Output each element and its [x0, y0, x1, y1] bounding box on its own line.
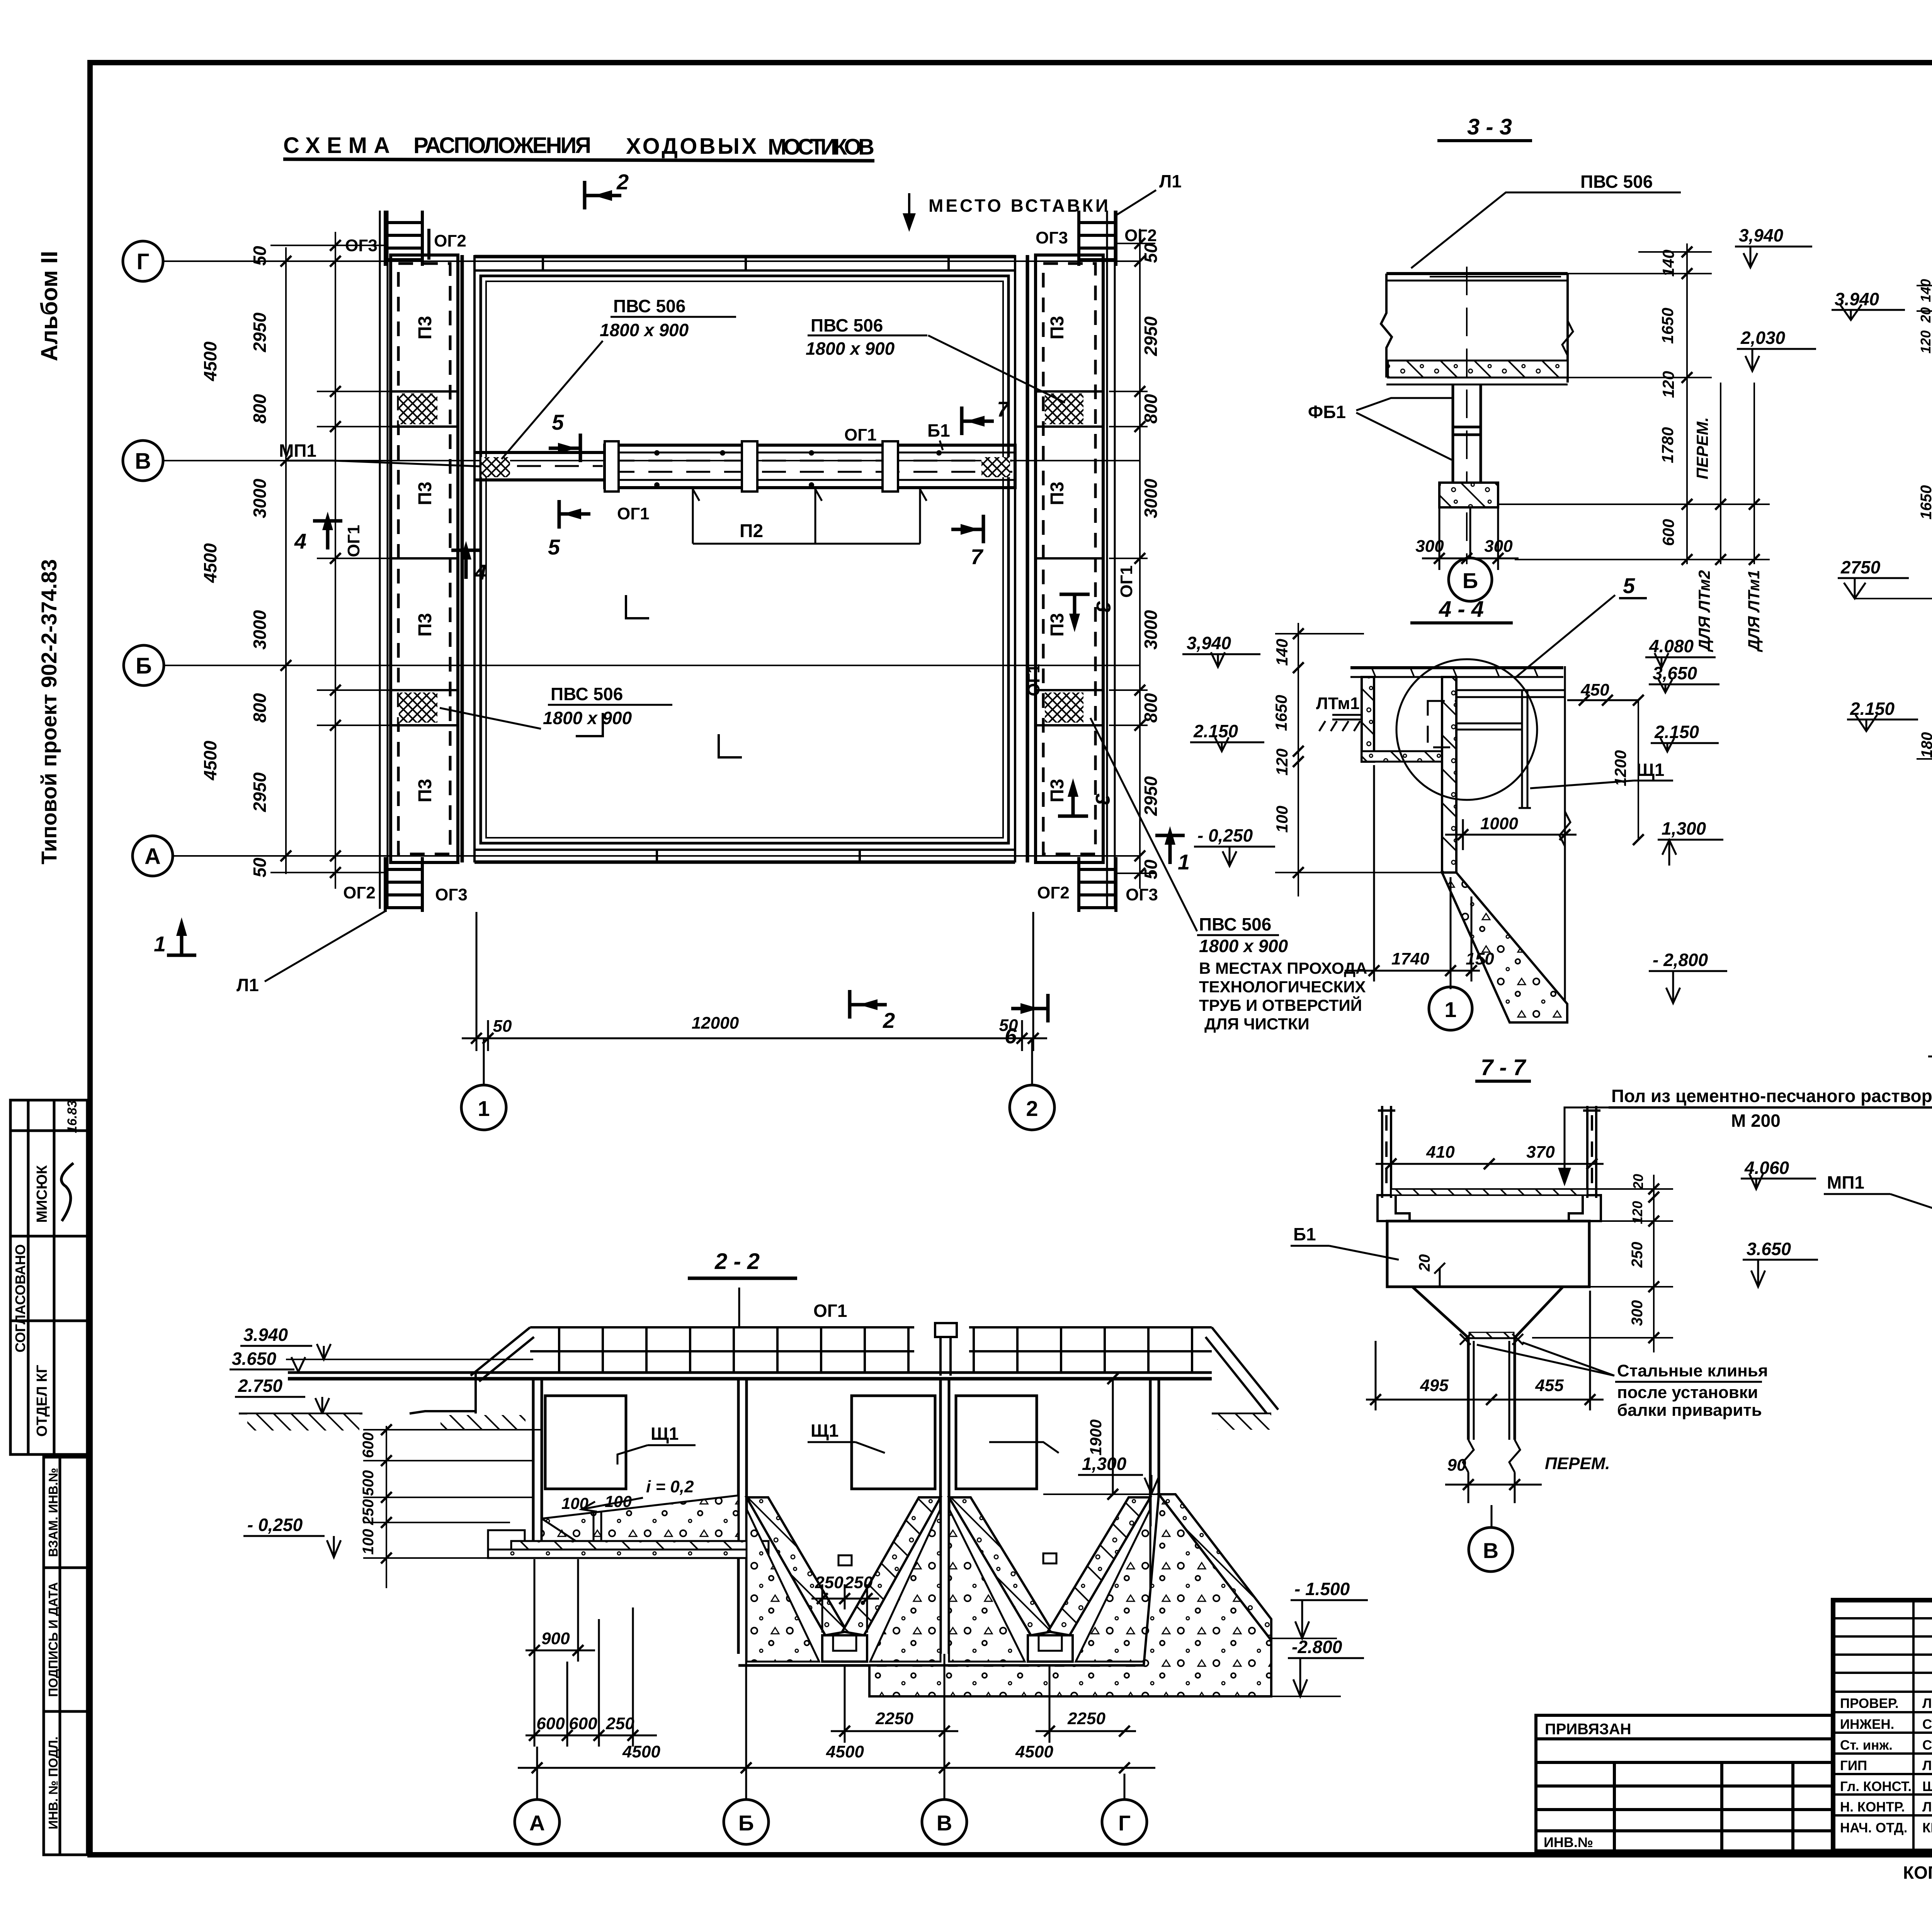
- svg-text:1650: 1650: [1918, 485, 1932, 520]
- svg-text:МП1: МП1: [1827, 1172, 1864, 1192]
- ladder bottom-right: [1079, 857, 1116, 912]
- svg-text:В: В: [1483, 1538, 1498, 1563]
- svg-text:500: 500: [360, 1470, 377, 1496]
- 4-4 hopper diagonal: [1442, 873, 1567, 1022]
- svg-text:П3: П3: [415, 613, 435, 636]
- svg-text:ОТДЕЛ КГ: ОТДЕЛ КГ: [34, 1365, 50, 1437]
- svg-text:50: 50: [250, 857, 270, 878]
- svg-text:МОСТИКОВ: МОСТИКОВ: [768, 134, 874, 160]
- section cut 1 (left bottom): [167, 927, 196, 955]
- axis bubbles 2-2: [536, 1747, 538, 1799]
- svg-text:100: 100: [1273, 806, 1291, 833]
- svg-text:П2: П2: [740, 521, 763, 541]
- dim 4500 x3 (2-2): [518, 1767, 1155, 1769]
- section cut 4 (left): [313, 521, 342, 549]
- hatch squares in panel columns: [399, 393, 437, 424]
- svg-text:120: 120: [1659, 371, 1677, 398]
- svg-text:20: 20: [1416, 1254, 1433, 1272]
- dim 90 перем (7-7): [1445, 1484, 1542, 1486]
- svg-text:495: 495: [1420, 1376, 1449, 1395]
- svg-text:Щ1: Щ1: [651, 1424, 679, 1444]
- floor plate: [1391, 1189, 1587, 1195]
- plan: right outer wall face lines: [1106, 211, 1108, 909]
- svg-text:ОГ3: ОГ3: [435, 885, 468, 904]
- plan: left outer wall face lines: [380, 211, 1115, 909]
- svg-text:Пол из цементно-песчаного рас: Пол из цементно-песчаного раствора: [1611, 1086, 1932, 1106]
- svg-text:КРАСАВИН: КРАСАВИН: [1922, 1820, 1932, 1835]
- svg-text:16.83: 16.83: [65, 1100, 80, 1133]
- svg-text:ОГ1: ОГ1: [1117, 565, 1136, 598]
- axis bubble Б (3-3): [1469, 507, 1471, 558]
- svg-text:1780: 1780: [1658, 427, 1677, 463]
- svg-text:4500: 4500: [826, 1742, 864, 1761]
- svg-text:ТЕХНОЛОГИЧЕСКИХ: ТЕХНОЛОГИЧЕСКИХ: [1199, 978, 1366, 996]
- svg-text:МЕСТО ВСТАВКИ: МЕСТО ВСТАВКИ: [929, 196, 1111, 216]
- svg-text:А: А: [529, 1811, 545, 1835]
- svg-text:ФБ1: ФБ1: [1308, 402, 1346, 422]
- svg-text:Г: Г: [1118, 1811, 1131, 1835]
- svg-text:20: 20: [1918, 307, 1932, 323]
- svg-text:7 - 7: 7 - 7: [1481, 1055, 1527, 1080]
- svg-text:П3: П3: [1047, 613, 1068, 636]
- attachment table (ПРИВЯЗАН): [1536, 1715, 1833, 1851]
- svg-text:ЛОУЦКЕР: ЛОУЦКЕР: [1922, 1758, 1932, 1773]
- svg-text:3000: 3000: [250, 478, 270, 518]
- svg-text:ОГ3: ОГ3: [1126, 885, 1158, 904]
- svg-text:140: 140: [1918, 279, 1932, 302]
- svg-text:3: 3: [1091, 794, 1114, 805]
- svg-text:4500: 4500: [200, 740, 220, 781]
- section cut 6 (bottom right): [1011, 994, 1048, 1022]
- 4-4 left dim chain: [1275, 623, 1442, 896]
- section cut 3 (upper, right wall): [1060, 594, 1090, 623]
- svg-text:Типовой проект 902-2-374.83: Типовой проект 902-2-374.83: [37, 559, 61, 864]
- svg-text:В МЕСТАХ ПРОХОДА: В МЕСТАХ ПРОХОДА: [1199, 959, 1367, 977]
- svg-text:1,300: 1,300: [1662, 818, 1706, 839]
- svg-text:МП1: МП1: [279, 441, 316, 461]
- svg-text:ПРИВЯЗАН: ПРИВЯЗАН: [1545, 1721, 1631, 1738]
- svg-text:600: 600: [536, 1714, 565, 1733]
- svg-text:П3: П3: [415, 316, 435, 339]
- svg-text:5: 5: [548, 535, 560, 559]
- svg-text:Б: Б: [1463, 568, 1478, 593]
- right sloped mass beyond Г: [869, 1494, 1271, 1696]
- svg-text:4 - 4: 4 - 4: [1439, 597, 1484, 622]
- axis line В: [163, 460, 1140, 461]
- section cut 2 (bottom): [850, 990, 887, 1019]
- svg-text:- 1.500: - 1.500: [1294, 1579, 1350, 1599]
- svg-text:-2.800: -2.800: [1292, 1637, 1342, 1657]
- section cut 2 (top): [585, 181, 621, 209]
- svg-text:А: А: [145, 844, 161, 869]
- svg-text:2,030: 2,030: [1740, 328, 1786, 348]
- axis bubble Г: [123, 241, 163, 281]
- plan: walkway at В - narrow part: [474, 441, 1015, 492]
- svg-text:800: 800: [250, 693, 270, 723]
- svg-text:1: 1: [478, 1096, 490, 1121]
- svg-text:Альбом II: Альбом II: [36, 251, 62, 361]
- svg-text:ПЕРЕМ.: ПЕРЕМ.: [1545, 1454, 1610, 1473]
- svg-text:370: 370: [1526, 1143, 1555, 1162]
- left stamp: upper table (СОГЛАСОВАНО): [10, 1100, 87, 1454]
- svg-text:СТРИГИНА: СТРИГИНА: [1922, 1717, 1932, 1732]
- svg-text:ШАПИРО: ШАПИРО: [1922, 1779, 1932, 1794]
- hopper 1 (Б-В): [747, 1497, 847, 1635]
- section cut 1 (right): [1155, 835, 1185, 864]
- svg-text:Б1: Б1: [927, 420, 950, 441]
- svg-text:3,940: 3,940: [1187, 633, 1231, 653]
- svg-text:2: 2: [616, 170, 629, 194]
- svg-text:140: 140: [1273, 639, 1291, 666]
- svg-text:Л1: Л1: [1159, 171, 1182, 191]
- svg-text:ПВС 506: ПВС 506: [1580, 172, 1653, 192]
- svg-text:2: 2: [1026, 1096, 1038, 1121]
- svg-text:300: 300: [1629, 1300, 1646, 1326]
- svg-text:50: 50: [250, 246, 270, 266]
- axis bubble Б: [124, 645, 164, 685]
- plan: left wall inner double line: [461, 255, 464, 862]
- svg-text:ПРОВЕР.: ПРОВЕР.: [1840, 1696, 1899, 1711]
- dim 900 (2-2): [526, 1559, 595, 1747]
- plan: inner basin contour: [481, 276, 1009, 843]
- svg-text:ГИП: ГИП: [1840, 1758, 1867, 1773]
- svg-text:455: 455: [1535, 1376, 1564, 1395]
- 4-4 central column: [1442, 677, 1456, 873]
- 4-4 pipe dashed: [1428, 701, 1456, 747]
- svg-text:250: 250: [1629, 1242, 1646, 1268]
- walkway rivet dots: [654, 450, 942, 488]
- svg-text:П3: П3: [1047, 481, 1068, 505]
- plan: bottom wall band at А: [474, 849, 1015, 851]
- axis bubble А: [133, 836, 173, 876]
- svg-text:1800 х 900: 1800 х 900: [543, 708, 632, 728]
- svg-text:ПВС 506: ПВС 506: [551, 684, 623, 704]
- svg-text:1650: 1650: [1272, 695, 1290, 731]
- svg-text:1000: 1000: [1480, 814, 1518, 833]
- svg-text:Н. КОНТР.: Н. КОНТР.: [1840, 1800, 1905, 1815]
- svg-text:ОГ1: ОГ1: [617, 504, 650, 523]
- svg-text:120: 120: [1273, 748, 1291, 776]
- left basin sloped fill: [542, 1495, 738, 1541]
- svg-text:800: 800: [1141, 693, 1161, 723]
- svg-text:50: 50: [1141, 859, 1161, 879]
- bottom dimension 50 12000 50: [462, 912, 1047, 1051]
- svg-text:800: 800: [1141, 394, 1161, 424]
- svg-text:150: 150: [1466, 949, 1494, 968]
- svg-text:i = 0,2: i = 0,2: [646, 1477, 694, 1496]
- svg-text:ПВС 506: ПВС 506: [1199, 914, 1271, 934]
- svg-text:1800 х 900: 1800 х 900: [600, 320, 689, 340]
- svg-text:1800 х 900: 1800 х 900: [1199, 936, 1288, 956]
- dim 600 600 250 (2-2): [526, 1607, 657, 1747]
- svg-text:ЛОУЦКЕР: ЛОУЦКЕР: [1922, 1800, 1932, 1815]
- svg-text:ОГ1: ОГ1: [1024, 664, 1043, 696]
- svg-text:ОГ3: ОГ3: [1036, 228, 1068, 247]
- svg-text:2 - 2: 2 - 2: [714, 1249, 760, 1274]
- svg-text:7: 7: [971, 544, 984, 569]
- beam flanges: [1378, 1195, 1601, 1221]
- handrail 2-2: [410, 1327, 1278, 1414]
- left dimension chain lines: [270, 232, 444, 889]
- svg-text:2250: 2250: [875, 1709, 913, 1728]
- svg-text:ИНВ. № ПОДЛ.: ИНВ. № ПОДЛ.: [46, 1737, 60, 1829]
- svg-text:120: 120: [1629, 1201, 1645, 1224]
- svg-text:Б: Б: [136, 653, 152, 679]
- node circle узел 5: [1396, 659, 1537, 800]
- svg-text:ПВС 506: ПВС 506: [613, 296, 685, 316]
- svg-text:3000: 3000: [1141, 478, 1161, 518]
- svg-text:КОПИРОВАЛ:: КОПИРОВАЛ:: [1903, 1863, 1932, 1883]
- ground 2-2: [239, 1413, 362, 1415]
- axis bubble В: [123, 441, 163, 481]
- 4-4 floor: [1362, 751, 1444, 762]
- svg-text:1: 1: [154, 932, 166, 956]
- svg-text:3: 3: [1092, 601, 1114, 612]
- plan: left panel column П3: [391, 255, 458, 862]
- svg-text:300: 300: [1415, 537, 1444, 556]
- svg-text:балки приварить: балки приварить: [1617, 1401, 1762, 1420]
- section cut 5 (lower): [559, 500, 590, 529]
- svg-text:Щ1: Щ1: [811, 1420, 838, 1441]
- dim 1900 + elevation 1,300 (2-2 right): [1112, 1379, 1114, 1494]
- title block: [1833, 1600, 1932, 1851]
- axis line Б: [164, 665, 1140, 666]
- svg-text:2950: 2950: [250, 312, 270, 352]
- svg-text:2750: 2750: [1840, 557, 1881, 577]
- svg-text:ЛОУЦКЕР: ЛОУЦКЕР: [1922, 1696, 1932, 1711]
- svg-text:П3: П3: [1047, 316, 1068, 339]
- left stair: [471, 1327, 530, 1376]
- axis bubble В (7-7): [1491, 1505, 1493, 1526]
- svg-text:410: 410: [1426, 1143, 1455, 1162]
- svg-text:100: 100: [605, 1492, 632, 1510]
- svg-text:1,300: 1,300: [1082, 1454, 1127, 1474]
- svg-text:Гл. КОНСТ.: Гл. КОНСТ.: [1840, 1779, 1912, 1794]
- svg-text:90: 90: [1447, 1456, 1466, 1475]
- svg-text:Л1: Л1: [236, 975, 259, 995]
- svg-text:1: 1: [1178, 850, 1190, 874]
- 4-4 top slab: [1350, 668, 1563, 677]
- svg-text:2: 2: [883, 1008, 895, 1032]
- svg-text:Г: Г: [137, 249, 150, 274]
- svg-text:ПЕРЕМ.: ПЕРЕМ.: [1693, 417, 1711, 480]
- svg-text:Б1: Б1: [1293, 1224, 1316, 1244]
- svg-text:ИНВ.№: ИНВ.№: [1544, 1834, 1593, 1850]
- svg-text:4500: 4500: [1015, 1742, 1053, 1761]
- main title: [283, 133, 874, 160]
- svg-text:1: 1: [1444, 997, 1456, 1022]
- svg-text:ТРУБ И ОТВЕРСТИЙ: ТРУБ И ОТВЕРСТИЙ: [1199, 996, 1362, 1014]
- svg-text:3.650: 3.650: [1747, 1239, 1791, 1259]
- svg-text:2950: 2950: [1141, 316, 1161, 356]
- svg-text:1650: 1650: [1658, 308, 1677, 344]
- dim 250 250 (2-2): [811, 1584, 879, 1633]
- section cut 4 (center): [451, 550, 481, 579]
- 3-3 right dim chain: [1498, 243, 1770, 564]
- svg-text:1900: 1900: [1087, 1419, 1105, 1455]
- svg-text:Б: Б: [738, 1811, 754, 1835]
- title block signature labels: [1840, 1696, 1932, 1835]
- column ФБ1 blocks: [1453, 384, 1481, 484]
- svg-text:3.650: 3.650: [232, 1349, 277, 1369]
- foundation pad: [1439, 483, 1498, 507]
- section cut 3 (lower, right wall): [1058, 788, 1088, 816]
- plan: top wall band at Г: [474, 257, 1015, 862]
- slab 3-3: [1381, 274, 1573, 383]
- svg-text:В: В: [135, 449, 151, 474]
- svg-text:ОГ1: ОГ1: [813, 1301, 847, 1321]
- svg-text:ХОДОВЫХ: ХОДОВЫХ: [626, 134, 757, 159]
- svg-text:4.060: 4.060: [1744, 1158, 1789, 1178]
- dims 2250 (2-2): [831, 1665, 1136, 1743]
- 4-4 dim 1200: [1638, 700, 1639, 840]
- section cut 7 (lower): [951, 515, 983, 543]
- svg-text:300: 300: [1484, 537, 1513, 556]
- center joint at В: [935, 1323, 957, 1376]
- svg-text:3,940: 3,940: [1739, 225, 1784, 245]
- svg-text:600: 600: [1659, 519, 1677, 546]
- svg-text:- 0,250: - 0,250: [247, 1515, 303, 1535]
- svg-text:100: 100: [561, 1494, 588, 1512]
- 4-4 left wall: [1362, 677, 1374, 762]
- dim 300 300: [1422, 509, 1519, 570]
- node left dim chain: [1917, 278, 1932, 777]
- svg-text:ВЗАМ. ИНВ.№: ВЗАМ. ИНВ.№: [46, 1468, 60, 1557]
- svg-text:3.940: 3.940: [243, 1325, 288, 1345]
- П3 labels: [415, 316, 1068, 802]
- svg-text:М 200: М 200: [1731, 1111, 1781, 1131]
- svg-text:5: 5: [1623, 573, 1635, 598]
- МП1 guard legs: [1378, 1106, 1600, 1198]
- svg-text:Щ1: Щ1: [1636, 760, 1664, 780]
- svg-text:ОГ2: ОГ2: [343, 883, 376, 902]
- 4-4 upper beam lines: [1456, 689, 1565, 691]
- svg-text:3000: 3000: [250, 610, 270, 650]
- beam Б1 body: [1387, 1221, 1589, 1503]
- svg-text:7: 7: [997, 397, 1010, 421]
- svg-text:250: 250: [815, 1573, 844, 1592]
- svg-text:50: 50: [1141, 243, 1161, 263]
- svg-text:2250: 2250: [1067, 1709, 1105, 1728]
- left stamp: lower table (ИНВ): [44, 1457, 87, 1855]
- hopper 2 (В-Г): [949, 1497, 1053, 1635]
- left chain tick slashes: [281, 240, 341, 878]
- svg-text:600: 600: [360, 1432, 377, 1458]
- node bottom dim chain: [1928, 769, 1932, 1067]
- ladder top-right: [1079, 211, 1116, 266]
- svg-text:В: В: [937, 1811, 952, 1835]
- dim 410 370: [1376, 1163, 1604, 1165]
- 7-7 right dim chain: [1532, 1175, 1673, 1352]
- svg-text:СОГЛАСОВАНО: СОГЛАСОВАНО: [12, 1244, 28, 1352]
- svg-text:1800 х 900: 1800 х 900: [806, 338, 895, 359]
- svg-text:ОГ2: ОГ2: [1037, 883, 1070, 902]
- small anchor boxes in hoppers: [838, 1555, 852, 1565]
- svg-text:4500: 4500: [200, 543, 220, 583]
- svg-text:2950: 2950: [250, 772, 270, 812]
- svg-text:МИСЮК: МИСЮК: [34, 1165, 50, 1223]
- svg-text:- 2,800: - 2,800: [1653, 950, 1708, 970]
- svg-text:СТРОНГИН: СТРОНГИН: [1922, 1738, 1932, 1753]
- 4-4 right edge: [1564, 666, 1566, 1002]
- svg-text:120: 120: [1918, 330, 1932, 354]
- svg-text:4: 4: [474, 560, 486, 584]
- svg-text:4500: 4500: [622, 1742, 660, 1761]
- svg-text:П3: П3: [1047, 779, 1068, 802]
- dim 495 455 (7-7): [1366, 1291, 1604, 1410]
- plan: right panel column П3: [1036, 255, 1103, 862]
- axis line Г: [163, 260, 1140, 262]
- svg-text:5: 5: [552, 410, 564, 434]
- plan: right wall inner double line: [1014, 255, 1016, 862]
- svg-text:ПВС 506: ПВС 506: [811, 315, 883, 335]
- svg-text:ОГ1: ОГ1: [844, 425, 877, 444]
- svg-text:3 - 3: 3 - 3: [1467, 114, 1512, 139]
- pit bottom lines: [738, 1664, 949, 1667]
- platform floor 2-2: [288, 1371, 1212, 1374]
- svg-text:2.750: 2.750: [238, 1376, 283, 1396]
- walls 2-2: [533, 1379, 1159, 1654]
- svg-text:250: 250: [844, 1573, 873, 1592]
- left dim labels: [200, 246, 270, 878]
- left dim stack (2-2): [363, 1426, 541, 1588]
- svg-text:ДЛЯ ЧИСТКИ: ДЛЯ ЧИСТКИ: [1204, 1015, 1310, 1033]
- svg-text:4: 4: [294, 529, 306, 553]
- svg-text:50: 50: [493, 1017, 512, 1036]
- svg-text:900: 900: [541, 1629, 570, 1648]
- svg-text:180: 180: [1918, 732, 1932, 758]
- svg-text:4500: 4500: [200, 341, 220, 381]
- svg-text:- 0,250: - 0,250: [1197, 825, 1253, 845]
- svg-text:П3: П3: [415, 779, 435, 802]
- column bubble 2: [1031, 1038, 1033, 1084]
- svg-text:Ст. инж.: Ст. инж.: [1840, 1738, 1893, 1753]
- corner marks in basin: [576, 595, 742, 757]
- right stair: [1212, 1327, 1278, 1410]
- svg-text:ОГ2: ОГ2: [1124, 226, 1157, 245]
- plan: walkway wide part: [605, 445, 1015, 488]
- svg-text:РАСПОЛОЖЕНИЯ: РАСПОЛОЖЕНИЯ: [413, 133, 591, 158]
- svg-text:ОГ3: ОГ3: [345, 236, 378, 255]
- svg-text:250: 250: [360, 1499, 377, 1526]
- 4-4 Щ1 panel: [1519, 690, 1531, 808]
- svg-text:1740: 1740: [1391, 949, 1429, 968]
- svg-text:12000: 12000: [692, 1014, 739, 1032]
- svg-text:800: 800: [250, 394, 270, 424]
- П2 bracket: [693, 489, 927, 544]
- svg-text:250: 250: [605, 1714, 634, 1733]
- svg-text:П3: П3: [415, 481, 435, 505]
- svg-text:после установки: после установки: [1617, 1383, 1758, 1402]
- svg-text:ИНЖЕН.: ИНЖЕН.: [1840, 1717, 1894, 1732]
- Щ1 boxes: [545, 1396, 626, 1489]
- axis line А: [173, 855, 1140, 857]
- svg-text:140: 140: [1659, 250, 1677, 277]
- 4-4 dims 1740 150: [1345, 765, 1480, 989]
- svg-text:Стальные клинья: Стальные клинья: [1617, 1361, 1768, 1380]
- ladder bottom-left: [385, 857, 422, 912]
- svg-text:ОГ2: ОГ2: [434, 231, 466, 250]
- svg-text:ОГ1: ОГ1: [344, 525, 363, 557]
- svg-text:6: 6: [1005, 1024, 1017, 1048]
- ladder top-left: [385, 211, 429, 266]
- svg-text:450: 450: [1580, 680, 1609, 699]
- svg-text:ЛТм1: ЛТм1: [1316, 694, 1360, 713]
- svg-text:600: 600: [569, 1714, 597, 1733]
- svg-text:100: 100: [360, 1529, 377, 1555]
- svg-text:ДЛЯ ЛТм1: ДЛЯ ЛТм1: [1745, 570, 1763, 652]
- svg-text:НАЧ. ОТД.: НАЧ. ОТД.: [1840, 1820, 1907, 1835]
